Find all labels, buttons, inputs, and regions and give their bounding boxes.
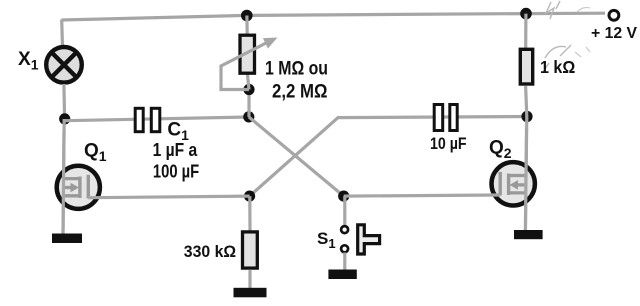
wire Q1 gate to node C: [88, 196, 249, 198]
wire node A to node B (through C1): [65, 117, 249, 121]
wire rail to 1k top: [524, 14, 527, 49]
ground under S1: [328, 270, 356, 280]
switch S1 lower contact: [341, 245, 348, 252]
wire node D to S1: [343, 196, 346, 225]
wire lamp bottom to node A: [62, 84, 66, 119]
wire 330k bottom to ground: [248, 270, 251, 289]
wire rail to pot top: [245, 16, 249, 35]
ground under 330k: [234, 288, 267, 298]
wire diagonal node C to 10uF line: [250, 117, 528, 197]
svg-text:1 µF a: 1 µF a: [153, 140, 198, 160]
ground under Q2: [514, 230, 543, 239]
junction pot bottom: [243, 84, 254, 95]
wire scan smudge near 1k: [543, 1, 571, 72]
wire node B up to pot bottom: [247, 90, 250, 118]
potentiometer wiper arrowhead: [263, 38, 278, 49]
wire diagonal node B to node D: [249, 117, 344, 196]
junction rail-pot: [241, 10, 253, 22]
switch S1 button actuator: [358, 225, 380, 254]
terminal +12V: [609, 10, 619, 20]
ground under Q1: [52, 234, 82, 244]
transistor Q2: [492, 162, 535, 205]
svg-text:Q1: Q1: [84, 140, 107, 164]
capacitor 10uF: [434, 105, 457, 131]
junction rail-1k: [520, 8, 532, 20]
wire pot bottom lead: [247, 74, 249, 90]
transistor Q1: [57, 166, 100, 209]
node A junction: [59, 113, 70, 124]
wire 1k bottom to node E: [526, 86, 527, 117]
wire scan smudge 2: [575, 8, 590, 58]
svg-text:1 MΩ ou: 1 MΩ ou: [265, 58, 328, 79]
svg-text:+ 12 V: + 12 V: [591, 25, 637, 42]
node D junction: [338, 191, 349, 202]
potentiometer P1 body: [240, 35, 255, 73]
svg-text:330 kΩ: 330 kΩ: [184, 243, 236, 261]
svg-text:S1: S1: [317, 229, 336, 251]
wire node E down through Q2 to ground: [525, 117, 526, 232]
resistor R 330k body: [243, 232, 258, 268]
resistor R 1k body: [520, 49, 532, 84]
svg-text:Q2: Q2: [489, 137, 512, 161]
wire Q2 gate to node D: [344, 195, 501, 196]
wire node C to 330k: [248, 196, 251, 230]
wire through Q2 right side: [525, 128, 526, 231]
lamp X1: [46, 47, 82, 83]
svg-text:2,2 MΩ: 2,2 MΩ: [272, 82, 328, 103]
wire S1 to ground: [343, 253, 346, 271]
potentiometer wiper arm: [221, 43, 267, 90]
wire node A down to ground (Q1 gate rail): [63, 119, 64, 234]
wire lamp top: [60, 20, 64, 48]
svg-text:X1: X1: [18, 49, 39, 73]
wire through Q1 left side: [63, 130, 64, 234]
node E junction: [521, 111, 532, 122]
svg-text:1 kΩ: 1 kΩ: [540, 57, 575, 77]
capacitor C1: [135, 108, 160, 131]
node C junction: [244, 191, 255, 202]
wire top supply rail: [62, 13, 606, 20]
svg-text:10 µF: 10 µF: [430, 134, 467, 153]
node B junction: [243, 111, 254, 122]
switch S1 upper contact: [341, 226, 348, 233]
svg-text:100 µF: 100 µF: [153, 161, 199, 181]
